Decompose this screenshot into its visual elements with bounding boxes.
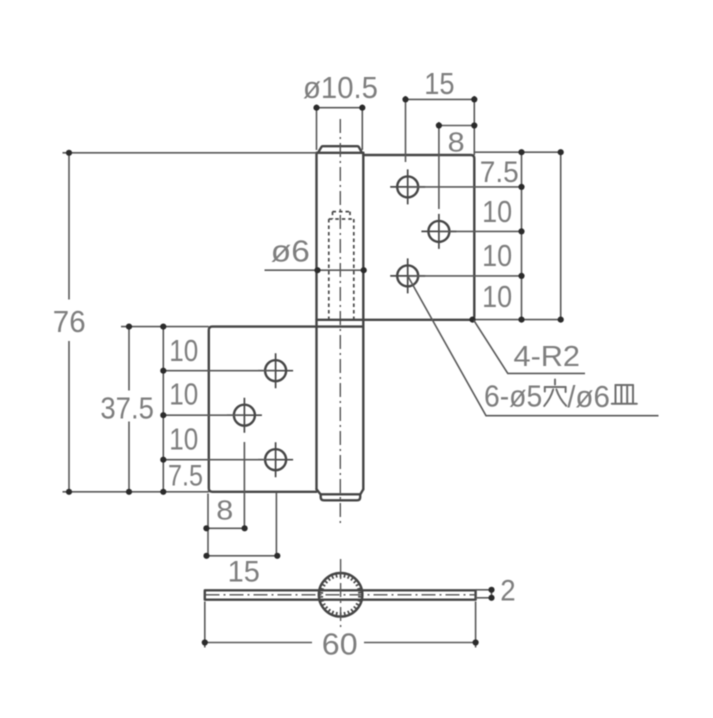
dimension 15 top extension lines <box>406 96 475 162</box>
barrel bottom chamfer left <box>317 489 321 494</box>
dimension o6 line <box>265 269 366 271</box>
hole R3 (right bottom) <box>390 258 425 293</box>
svg-text:10: 10 <box>482 194 512 229</box>
dimension 37.5 line <box>128 327 130 492</box>
right leaf plate <box>317 155 475 320</box>
hole L3 (left bottom) <box>258 442 293 477</box>
dimension 8 bottom extension lines <box>208 442 244 558</box>
svg-text:60: 60 <box>322 627 358 662</box>
svg-text:4-R2: 4-R2 <box>514 341 581 373</box>
svg-text:ø10.5: ø10.5 <box>303 70 378 105</box>
hole L1 (left top) <box>258 353 293 388</box>
bottom view knuckle circle <box>319 573 363 617</box>
hidden pin hole chamfer right <box>349 212 351 219</box>
dimension 15 bottom extension line <box>275 493 277 559</box>
right connector line hole R3 <box>408 275 522 277</box>
corner dot at plate bottom-right <box>469 317 475 323</box>
dimension 8 top extension line <box>438 122 440 209</box>
svg-text:7.5: 7.5 <box>168 459 203 492</box>
leader 4-R2 <box>474 320 585 373</box>
kanji sara (countersink) <box>612 385 637 404</box>
dimension 76 bottom extension <box>63 491 209 493</box>
svg-text:ø6: ø6 <box>271 234 310 269</box>
hole R2 (right middle) <box>421 214 456 249</box>
svg-text:10: 10 <box>482 279 512 314</box>
svg-text:10: 10 <box>169 376 198 411</box>
bottom view knuckle serrations <box>319 573 362 617</box>
right tick dimension line <box>521 152 523 319</box>
hidden pin hole chamfer left <box>332 212 334 219</box>
svg-text:15: 15 <box>424 66 454 101</box>
hole L2 (left middle) <box>227 398 262 433</box>
dimension 15 bottom line <box>207 555 278 557</box>
left connector line hole L1 <box>163 370 275 372</box>
dimension 15 top line <box>406 98 475 100</box>
svg-text:8: 8 <box>448 127 465 158</box>
right bottom extension line <box>474 319 560 321</box>
hidden pin hole right wall <box>353 219 355 320</box>
hidden pin hole top <box>333 211 351 213</box>
dimension 37.5 top extension <box>121 326 209 328</box>
leader 6-o5 <box>408 276 659 416</box>
left connector line hole L3 <box>163 459 275 461</box>
svg-text:15: 15 <box>228 556 260 589</box>
right overall line <box>560 152 562 319</box>
svg-text:8: 8 <box>216 495 233 526</box>
dimension 76 top extension <box>63 152 317 154</box>
bottom view plate <box>205 590 476 599</box>
dimension 8 bottom line <box>206 527 244 529</box>
dimension o10.5 extension lines <box>317 105 363 151</box>
svg-text:10: 10 <box>169 421 198 456</box>
barrel center line <box>339 119 341 525</box>
barrel bottom cap <box>321 494 361 500</box>
dimension 2 leaders <box>476 590 492 598</box>
svg-text:7.5: 7.5 <box>480 156 519 189</box>
bottom view horizontal center line <box>206 594 476 596</box>
barrel top line <box>317 152 364 154</box>
kanji ana (hole) <box>544 380 566 407</box>
svg-text:10: 10 <box>169 333 198 368</box>
left connector line hole L2 <box>163 414 244 416</box>
barrel top cap <box>318 146 362 153</box>
svg-text:37.5: 37.5 <box>100 390 153 425</box>
svg-text:2: 2 <box>500 575 515 608</box>
right top extension line <box>474 151 560 153</box>
bottom view vertical center line <box>340 559 342 629</box>
hole R1 (right top) <box>390 169 425 204</box>
svg-text:6-ø5: 6-ø5 <box>484 379 542 414</box>
dimension o10.5 line <box>317 107 363 109</box>
svg-text:/ø6: /ø6 <box>567 379 610 414</box>
dimension 60 line <box>205 642 476 644</box>
hidden pin hole shoulder <box>329 218 354 220</box>
barrel bottom chamfer right <box>360 489 363 494</box>
dimension 60 extension lines <box>205 602 476 648</box>
dimension 76 line <box>68 153 70 492</box>
right connector line hole R2 <box>439 230 522 232</box>
svg-text:76: 76 <box>53 304 86 339</box>
dimension 8 top line <box>439 125 474 127</box>
hidden pin hole left wall <box>328 219 330 320</box>
svg-text:10: 10 <box>482 238 512 273</box>
right connector line hole R1 <box>408 186 522 188</box>
left tick dimension line <box>162 327 164 492</box>
barrel left side <box>315 153 317 490</box>
left leaf plate <box>209 327 363 492</box>
barrel right side <box>362 153 364 490</box>
